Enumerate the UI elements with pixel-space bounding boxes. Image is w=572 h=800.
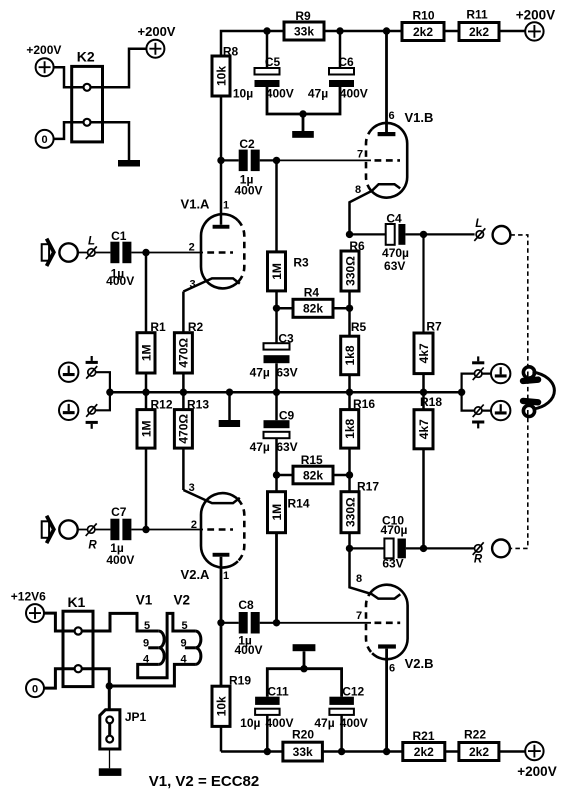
svg-text:R10: R10 <box>412 9 434 23</box>
svg-text:6: 6 <box>389 662 395 674</box>
svg-text:33k: 33k <box>293 745 313 759</box>
svg-text:4: 4 <box>180 653 187 665</box>
svg-text:2k2: 2k2 <box>413 25 433 39</box>
svg-text:4k7: 4k7 <box>417 419 431 439</box>
svg-text:R11: R11 <box>466 8 488 22</box>
svg-text:82k: 82k <box>303 468 323 482</box>
svg-text:V1: V1 <box>136 593 153 608</box>
svg-text:+200V: +200V <box>26 43 61 57</box>
svg-text:R14: R14 <box>287 497 309 511</box>
svg-text:R18: R18 <box>420 395 442 409</box>
svg-text:470Ω: 470Ω <box>177 414 191 444</box>
svg-text:1M: 1M <box>139 344 153 361</box>
svg-text:C2: C2 <box>239 137 255 151</box>
svg-text:R8: R8 <box>223 45 239 59</box>
svg-text:V2: V2 <box>173 593 190 608</box>
svg-text:+200V: +200V <box>138 24 176 39</box>
svg-text:R1: R1 <box>150 320 166 334</box>
svg-text:63V: 63V <box>384 259 405 273</box>
svg-text:C8: C8 <box>238 598 254 612</box>
svg-text:1M: 1M <box>270 504 284 521</box>
svg-text:0: 0 <box>42 134 48 146</box>
svg-text:400V: 400V <box>266 86 294 100</box>
svg-text:470Ω: 470Ω <box>177 338 191 368</box>
svg-text:2k2: 2k2 <box>469 25 489 39</box>
svg-text:R7: R7 <box>426 320 442 334</box>
svg-text:4: 4 <box>143 653 150 665</box>
svg-text:470µ: 470µ <box>382 246 409 260</box>
svg-text:7: 7 <box>356 610 362 622</box>
svg-text:1k8: 1k8 <box>343 345 357 365</box>
svg-text:R17: R17 <box>357 479 379 493</box>
svg-text:400V: 400V <box>340 86 368 100</box>
svg-text:47µ: 47µ <box>250 440 270 454</box>
svg-text:400V: 400V <box>265 716 293 730</box>
svg-text:63V: 63V <box>382 557 403 571</box>
svg-text:400V: 400V <box>106 553 134 567</box>
svg-text:330Ω: 330Ω <box>343 497 357 527</box>
svg-text:JP1: JP1 <box>125 710 147 724</box>
svg-text:2: 2 <box>191 519 197 531</box>
svg-text:9: 9 <box>180 637 186 649</box>
svg-text:R22: R22 <box>464 728 486 742</box>
svg-text:C3: C3 <box>278 332 294 346</box>
svg-text:R6: R6 <box>349 239 365 253</box>
svg-text:R13: R13 <box>187 397 209 411</box>
svg-text:R19: R19 <box>229 673 251 687</box>
svg-text:C7: C7 <box>111 505 127 519</box>
svg-text:K2: K2 <box>77 49 95 65</box>
svg-text:R16: R16 <box>353 397 375 411</box>
svg-text:+200V: +200V <box>517 764 556 779</box>
svg-text:9: 9 <box>143 637 149 649</box>
svg-text:3: 3 <box>190 278 196 290</box>
svg-text:R15: R15 <box>301 453 323 467</box>
svg-text:+200V: +200V <box>516 7 555 22</box>
svg-text:C12: C12 <box>342 684 364 698</box>
svg-text:6: 6 <box>388 110 394 122</box>
svg-text:10k: 10k <box>214 66 228 86</box>
svg-text:3: 3 <box>189 482 195 494</box>
svg-text:1M: 1M <box>139 420 153 437</box>
svg-text:C5: C5 <box>265 55 281 69</box>
svg-text:1M: 1M <box>270 263 284 280</box>
svg-text:C11: C11 <box>267 684 289 698</box>
svg-text:V2.B: V2.B <box>405 656 434 671</box>
svg-text:400V: 400V <box>106 274 134 288</box>
svg-text:R21: R21 <box>412 729 434 743</box>
svg-text:R4: R4 <box>304 285 320 299</box>
svg-text:10µ: 10µ <box>233 86 253 100</box>
svg-text:V1.B: V1.B <box>405 110 434 125</box>
svg-text:R2: R2 <box>188 320 204 334</box>
svg-text:8: 8 <box>355 184 361 196</box>
svg-text:V2.A: V2.A <box>181 567 211 582</box>
svg-text:2k2: 2k2 <box>469 745 489 759</box>
svg-text:C4: C4 <box>386 211 402 225</box>
svg-text:R5: R5 <box>351 320 367 334</box>
svg-text:400V: 400V <box>234 184 262 198</box>
svg-text:63V: 63V <box>276 440 297 454</box>
svg-text:400V: 400V <box>340 716 368 730</box>
svg-text:47µ: 47µ <box>250 366 270 380</box>
svg-text:63V: 63V <box>276 366 297 380</box>
svg-text:R: R <box>88 540 97 552</box>
svg-text:33k: 33k <box>294 24 314 38</box>
svg-text:L: L <box>88 236 95 248</box>
svg-text:R12: R12 <box>150 397 172 411</box>
svg-text:L: L <box>475 218 482 230</box>
svg-text:1: 1 <box>223 199 229 211</box>
svg-text:2: 2 <box>189 241 195 253</box>
svg-text:+12V6: +12V6 <box>11 590 46 604</box>
svg-text:C1: C1 <box>111 229 127 243</box>
svg-text:82k: 82k <box>303 302 323 316</box>
svg-text:7: 7 <box>357 149 363 161</box>
svg-text:1: 1 <box>223 570 229 582</box>
svg-text:5: 5 <box>181 620 187 632</box>
svg-text:4k7: 4k7 <box>417 343 431 363</box>
svg-text:C9: C9 <box>279 409 295 423</box>
svg-text:1k8: 1k8 <box>343 418 357 438</box>
svg-text:C6: C6 <box>338 55 354 69</box>
svg-text:47µ: 47µ <box>314 716 334 730</box>
svg-text:8: 8 <box>356 573 362 585</box>
svg-text:470µ: 470µ <box>381 523 408 537</box>
svg-text:R3: R3 <box>293 256 309 270</box>
svg-text:2k2: 2k2 <box>414 745 434 759</box>
svg-text:V1.A: V1.A <box>181 197 211 212</box>
svg-text:330Ω: 330Ω <box>343 256 357 286</box>
svg-text:R: R <box>474 554 483 566</box>
svg-text:0: 0 <box>32 683 38 695</box>
svg-text:V1, V2 = ECC82: V1, V2 = ECC82 <box>149 773 259 790</box>
svg-text:R9: R9 <box>295 9 311 23</box>
svg-text:10µ: 10µ <box>240 716 260 730</box>
svg-text:400V: 400V <box>234 643 262 657</box>
svg-text:K1: K1 <box>67 594 85 610</box>
svg-text:47µ: 47µ <box>308 86 328 100</box>
svg-text:R20: R20 <box>292 727 314 741</box>
svg-text:5: 5 <box>144 620 150 632</box>
svg-text:10k: 10k <box>214 696 228 716</box>
